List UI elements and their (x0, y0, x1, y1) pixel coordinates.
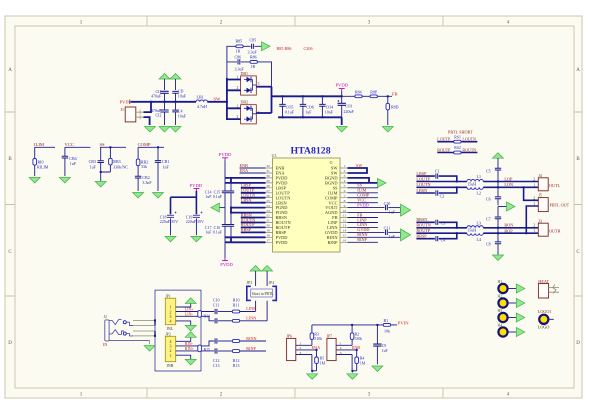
svg-text:1M: 1M (320, 361, 326, 365)
svg-text:JP3: JP3 (247, 280, 253, 285)
svg-text:RINP: RINP (246, 346, 256, 351)
net label LOUTN (241, 193, 266, 198)
wire PVDD to R84 (342, 95, 392, 97)
wire JP1 pin2 LIN+ (176, 306, 215, 311)
diode DB2 (237, 100, 260, 124)
capacitor CD 10uF (172, 89, 187, 102)
resistor R4 1M (355, 350, 366, 371)
ground JP6 (307, 374, 318, 380)
capacitor C3 (436, 220, 457, 228)
svg-text:R86: R86 (250, 54, 257, 59)
capacitor CI1 470uF (151, 89, 169, 102)
svg-text:15uH: 15uH (467, 228, 476, 233)
wire PGND pins 24 23 (231, 208, 266, 213)
capacitor CB3 1uF (89, 159, 104, 169)
net label ILIM pin6 (348, 188, 378, 193)
svg-text:1uF: 1uF (305, 110, 312, 115)
ground under J1 (145, 127, 156, 133)
capacitor C15 0.1uF (213, 178, 234, 208)
svg-text:SS: SS (100, 142, 106, 147)
svg-text:6: 6 (344, 189, 346, 193)
resistor R2 510k (350, 325, 362, 345)
wire JP1 pin4 to gnd (176, 321, 197, 331)
ground arrow mid (498, 202, 515, 211)
ground under RI0 (29, 178, 40, 184)
wire ROP row (483, 228, 538, 233)
svg-text:C13: C13 (213, 363, 220, 368)
inductor L3 15uH (467, 221, 483, 233)
ground under C4 (170, 127, 181, 133)
svg-text:PBTL SHORT: PBTL SHORT (448, 129, 473, 134)
svg-text:LOP: LOP (504, 176, 513, 181)
net label ENA (240, 168, 266, 173)
svg-text:C9: C9 (382, 344, 387, 348)
svg-text:R85 R86: R85 R86 (277, 46, 292, 51)
node ROP-C8 (497, 232, 499, 234)
svg-text:R14: R14 (204, 315, 210, 319)
ground arrow AGND (401, 204, 411, 216)
net label LOUTN (416, 182, 467, 187)
frame row ticks (5, 112, 582, 296)
ground under R8D (382, 127, 393, 133)
svg-text:C8: C8 (486, 241, 491, 246)
wire PVIN rail (131, 101, 197, 103)
wire JP3 to LINP (255, 301, 257, 312)
audio jack J2 (103, 315, 150, 347)
wire box edge joins (154, 320, 156, 336)
wire J5 pin1 to ROP (526, 206, 538, 233)
node R2 (351, 324, 353, 326)
svg-text:2: 2 (533, 178, 535, 182)
power arrow above CD (170, 74, 181, 91)
net label SS pin5 (348, 183, 378, 188)
svg-text:1uF: 1uF (382, 349, 388, 353)
wire PVDD pins 30 29 (225, 178, 266, 183)
svg-text:RINN: RINN (246, 336, 256, 341)
svg-text:20: 20 (266, 224, 270, 228)
capacitor CB2 3.3nF (135, 175, 152, 185)
svg-text:OUTL: OUTL (549, 183, 561, 188)
svg-text:C11: C11 (213, 303, 220, 308)
svg-text:510k: 510k (314, 337, 322, 341)
net label LBSN (241, 198, 266, 203)
wire J1 pin2 to ground (144, 117, 150, 125)
wire JP2 pin2 RIN+ (176, 346, 215, 351)
node C3 (456, 227, 458, 229)
jumper JP4 (269, 280, 277, 300)
net label RBSP (416, 234, 435, 239)
resistor R8P (370, 90, 378, 98)
svg-text:LB1: LB1 (197, 94, 204, 99)
svg-text:3: 3 (300, 351, 302, 355)
svg-text:VCC: VCC (65, 142, 74, 147)
svg-text:1: 1 (344, 164, 346, 168)
svg-text:INR: INR (167, 363, 174, 368)
svg-text:C6: C6 (486, 196, 491, 201)
svg-text:JP4: JP4 (269, 280, 275, 285)
svg-text:PVDD: PVDD (276, 240, 288, 245)
svg-text:CO6: CO6 (306, 104, 314, 109)
power arrow above CI1 (159, 74, 170, 91)
net label RINN pin15 (348, 232, 401, 237)
wire J5 pin2 to LON (524, 187, 539, 200)
resistor R1 10k (383, 318, 397, 333)
svg-text:LOGO: LOGO (538, 325, 550, 330)
resistor R84 (355, 90, 362, 98)
ground under C18 (165, 236, 176, 242)
resistor R5 1M (315, 350, 326, 371)
node ENB (356, 349, 358, 351)
svg-text:LBSN: LBSN (241, 198, 252, 203)
node CO4 (321, 95, 323, 97)
wire to ground (341, 117, 343, 125)
svg-text:IN: IN (103, 342, 107, 347)
svg-text:D: D (576, 341, 580, 346)
svg-text:1uF: 1uF (70, 161, 77, 166)
svg-text:10uF: 10uF (178, 114, 187, 119)
capacitor CO6 1uF (300, 96, 314, 117)
wire jack to box (133, 320, 155, 344)
net label LOUTP (416, 176, 467, 181)
IC U3 body (272, 153, 341, 252)
node ENA (316, 349, 318, 351)
capacitor CO5 0.1uF (279, 96, 295, 117)
wires DB2 pins (227, 108, 241, 119)
node CO6 (302, 95, 304, 97)
svg-text:28: 28 (266, 184, 270, 188)
net label LINN pin13 (348, 222, 378, 227)
svg-text:COMP: COMP (138, 142, 151, 147)
svg-text:22: 22 (266, 214, 270, 218)
net label RBSN (241, 212, 266, 217)
svg-text:R84: R84 (355, 90, 362, 95)
power arrow row1 (262, 42, 271, 51)
svg-text:19: 19 (266, 229, 270, 233)
svg-text:CO5: CO5 (286, 104, 294, 109)
svg-text:LBSP: LBSP (416, 171, 427, 176)
svg-text:R13: R13 (233, 363, 240, 368)
svg-text:470uF: 470uF (151, 94, 162, 99)
resistor RS2 (437, 146, 477, 154)
svg-text:10k: 10k (384, 328, 390, 333)
node J5-LON (523, 186, 525, 188)
ground under CO1 (336, 127, 347, 133)
svg-text:RBSN: RBSN (416, 217, 427, 222)
svg-text:510k: 510k (355, 337, 363, 341)
svg-text:R15: R15 (204, 348, 210, 352)
svg-text:PVDD: PVDD (220, 262, 233, 267)
svg-text:LOUTP: LOUTP (416, 176, 430, 181)
net label LBSP (416, 171, 435, 176)
capacitor C14 1uF (205, 190, 228, 200)
svg-text:L4: L4 (477, 237, 481, 242)
svg-text:11: 11 (343, 214, 347, 218)
hole H2 (498, 294, 525, 307)
svg-text:25: 25 (266, 199, 270, 203)
wire DB1 out (256, 86, 271, 88)
svg-text:J4: J4 (538, 173, 542, 178)
capacitor C7 (486, 216, 501, 221)
wire gnd bus (278, 116, 342, 118)
svg-text:A: A (8, 68, 12, 73)
heatsink HEAT (538, 279, 559, 298)
power port PVDD electrolytics (190, 183, 203, 191)
resistor RI0 RILIM (33, 159, 49, 170)
svg-text:PVDD: PVDD (190, 183, 203, 188)
wire SW hook pins 1 2 (348, 168, 368, 173)
net label PVIN (120, 100, 131, 105)
svg-text:PVDD: PVDD (336, 83, 349, 88)
capacitor C16 0.1uF (213, 213, 234, 243)
svg-text:C7: C7 (486, 216, 491, 221)
svg-text:220uF/35V: 220uF/35V (160, 219, 178, 224)
net label RINN (240, 336, 266, 341)
capacitor C11 (213, 303, 233, 324)
power arrow JP4 (262, 266, 273, 287)
wire J1 pin1 to rail (144, 102, 152, 112)
resistor R86 1R (250, 54, 257, 69)
net label COMP pin7 (348, 193, 378, 198)
svg-text:INL: INL (167, 326, 174, 331)
capacitor CI2 470uF (151, 102, 169, 125)
jumper JP3 (247, 280, 253, 300)
ground under CB2 (133, 193, 144, 199)
svg-text:OUTR: OUTR (549, 228, 561, 233)
capacitor C19 220uF/35V (186, 212, 204, 236)
wire AGND pin10 (348, 208, 401, 213)
resistor R3 510k (310, 325, 322, 345)
svg-text:PBTL OUT: PBTL OUT (550, 203, 570, 208)
svg-text:L1: L1 (477, 174, 481, 179)
wire LOP row (483, 176, 538, 181)
hole H1 (498, 280, 525, 293)
inductor L2 (467, 187, 483, 195)
IC U3 right pin numbers (343, 164, 347, 242)
node RON-C7 (497, 227, 499, 229)
svg-text:C86: C86 (235, 54, 242, 59)
ground JP7 (347, 374, 358, 380)
resistor R14 (198, 311, 210, 319)
capacitor CB4 1uF (62, 156, 77, 166)
net label GVDD pin14 (348, 227, 385, 232)
svg-text:R4: R4 (360, 357, 365, 361)
svg-text:C2: C2 (440, 193, 445, 198)
inductor L4 (467, 233, 483, 242)
svg-text:2: 2 (533, 224, 535, 228)
IC U3 left pin numbers (266, 164, 270, 242)
net label RBSP (241, 227, 266, 232)
connector J4 OUTL (533, 173, 560, 191)
net label ROUTP (241, 222, 266, 227)
logo LOGO (538, 309, 554, 330)
svg-text:23: 23 (266, 209, 270, 213)
wire C5 chain (497, 182, 499, 255)
svg-text:ROUTN: ROUTN (462, 147, 476, 152)
svg-text:LON: LON (504, 182, 513, 187)
node rail-J1 (150, 101, 152, 103)
svg-text:LBSN: LBSN (416, 188, 427, 193)
power port PVDD (336, 83, 349, 92)
svg-text:R2: R2 (355, 332, 360, 336)
capacitor C85 3.3uF (248, 38, 258, 55)
svg-text:1: 1 (533, 184, 535, 188)
ground under CB4 (59, 178, 70, 184)
svg-text:R3: R3 (314, 332, 319, 336)
svg-text:LINN: LINN (246, 316, 256, 321)
connector JP1 (165, 295, 175, 332)
capacitor C2 (436, 187, 457, 198)
svg-text:R85: R85 (236, 39, 243, 44)
net label LINP pin12 (348, 217, 378, 222)
net label ROUTP (416, 228, 467, 233)
svg-text:10uF: 10uF (178, 94, 187, 99)
capacitor C20 1uF (384, 201, 401, 215)
wire DB2 out (256, 112, 271, 114)
resistor R15 (198, 345, 210, 352)
node PVDD (341, 95, 343, 97)
svg-text:30: 30 (266, 174, 270, 178)
svg-text:32: 32 (266, 164, 270, 168)
resistor RS1 (437, 135, 477, 143)
IC U3 right pin names (325, 166, 339, 245)
svg-text:ILIM: ILIM (34, 142, 44, 147)
net COMP (138, 142, 164, 191)
svg-text:7: 7 (344, 194, 346, 198)
svg-text:3: 3 (340, 351, 342, 355)
svg-text:10: 10 (343, 209, 347, 213)
svg-text:24: 24 (266, 204, 270, 208)
svg-text:ROUTP: ROUTP (437, 147, 451, 152)
net label LOUTP (241, 188, 266, 193)
svg-text:LOUTN: LOUTN (416, 182, 430, 187)
wire LB1 to SW bus (207, 101, 227, 103)
svg-text:8: 8 (344, 199, 346, 203)
svg-text:1: 1 (533, 229, 535, 233)
svg-text:FB: FB (392, 91, 398, 96)
wire PVDD rail (272, 95, 342, 97)
svg-text:L2: L2 (477, 191, 481, 196)
node CD (175, 101, 177, 103)
svg-text:R1: R1 (384, 318, 389, 323)
svg-text:27: 27 (266, 189, 270, 193)
svg-text:RBSP: RBSP (416, 234, 427, 239)
SW bus (226, 78, 228, 120)
svg-text:0.1uF: 0.1uF (285, 110, 295, 115)
net label ROUTN (416, 223, 467, 228)
ground under jack (144, 346, 155, 352)
inductor LB1 4.7uH (196, 94, 207, 108)
net label PVDD pin9 (348, 202, 385, 207)
svg-text:1: 1 (170, 353, 172, 358)
capacitor CO4 10uF (319, 96, 334, 117)
svg-text:330k/NC: 330k/NC (113, 164, 128, 169)
svg-text:LINP: LINP (246, 306, 256, 311)
capacitor C12 (213, 338, 233, 363)
svg-text:15: 15 (343, 234, 347, 238)
node C1 (456, 181, 458, 183)
node CI1 (164, 101, 166, 103)
svg-text:14: 14 (343, 229, 347, 233)
svg-text:3: 3 (258, 82, 260, 86)
svg-text:0.1uF: 0.1uF (213, 229, 223, 234)
svg-text:R8P: R8P (370, 90, 378, 95)
ground under C19 (191, 236, 202, 242)
node PGND (230, 207, 232, 209)
svg-text:1uF: 1uF (389, 209, 396, 214)
net label RINP pin16 (348, 237, 378, 242)
svg-text:RILIM: RILIM (37, 165, 49, 170)
net label LINP (240, 306, 257, 311)
svg-text:13: 13 (343, 224, 347, 228)
svg-text:D: D (8, 341, 12, 346)
resistor R13 (232, 350, 239, 368)
ground under CB3 (95, 182, 106, 188)
ground arrow BGND (378, 178, 387, 187)
connector JP7 (327, 335, 357, 361)
svg-text:1uF: 1uF (90, 164, 97, 169)
resistor R8D (386, 96, 399, 125)
wire PVDD vertical join (271, 87, 273, 113)
svg-text:PVIN: PVIN (398, 321, 409, 326)
svg-text:12: 12 (343, 219, 347, 223)
svg-text:DB2: DB2 (241, 100, 249, 105)
svg-text:C5: C5 (486, 169, 491, 174)
svg-text:5: 5 (344, 184, 346, 188)
svg-text:LOGO1: LOGO1 (538, 309, 552, 314)
svg-text:CI2: CI2 (156, 113, 162, 118)
svg-text:SW: SW (214, 97, 222, 102)
frame column ticks (147, 16, 443, 398)
svg-text:J3: J3 (538, 218, 542, 223)
capacitor C1 (435, 168, 457, 181)
svg-text:220uF/35V: 220uF/35V (186, 219, 204, 224)
svg-text:LOUTN: LOUTN (462, 137, 476, 142)
svg-text:LOUTP: LOUTP (437, 137, 451, 142)
svg-text:4: 4 (170, 319, 172, 324)
svg-text:17: 17 (266, 239, 270, 243)
net label VCC pin8 (348, 198, 378, 203)
ground under C8 (493, 255, 504, 261)
svg-text:3: 3 (344, 174, 346, 178)
svg-text:L3: L3 (477, 221, 481, 226)
diode DB1 (237, 71, 260, 95)
wire JP1 pin1 to agnd (176, 298, 197, 307)
svg-text:RINP: RINP (357, 237, 367, 242)
svg-text:RS1: RS1 (454, 135, 461, 139)
svg-text:ENA: ENA (240, 168, 249, 173)
resistor R85 1R (236, 39, 244, 54)
svg-text:RON: RON (504, 223, 513, 228)
svg-text:C85: C85 (250, 38, 257, 43)
svg-text:31: 31 (266, 169, 270, 173)
svg-text:CO1: CO1 (345, 103, 353, 108)
node LOP-C5 (497, 181, 499, 183)
inductor L1 15uH (467, 174, 483, 186)
svg-text:SW: SW (356, 163, 362, 168)
svg-text:1uF: 1uF (205, 194, 212, 199)
wire JP2 pin4 to agnd (176, 332, 197, 342)
wire row2 (227, 62, 272, 87)
node J5-ROP (525, 232, 527, 234)
capacitor C5 (486, 168, 501, 181)
power arrow JP3 (250, 266, 261, 287)
IC U3 pin stubs left (266, 168, 273, 242)
capacitor C18 220uF/35V (160, 212, 178, 236)
node LON-C6 (497, 186, 499, 188)
svg-text:9: 9 (344, 204, 346, 208)
svg-text:1M: 1M (360, 361, 366, 365)
node CO5 (282, 95, 284, 97)
